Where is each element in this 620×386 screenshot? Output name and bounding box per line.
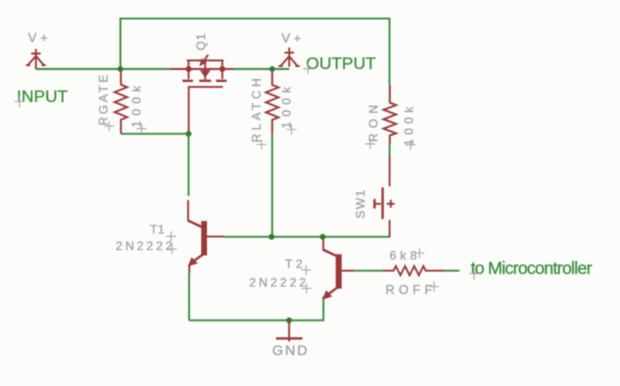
svg-text:GND: GND bbox=[272, 342, 309, 358]
svg-text:SW1: SW1 bbox=[354, 189, 368, 219]
Q1 middle leg bbox=[204, 61, 206, 80]
origin cross T2 bbox=[301, 265, 311, 275]
SW1 bottom pin bbox=[389, 220, 391, 237]
wire ROFF to microcontroller bbox=[445, 270, 460, 272]
ground symbol bbox=[276, 320, 302, 341]
wire bottom rail to T2 emitter bbox=[189, 297, 323, 321]
resistor RGATE 100k bbox=[115, 70, 128, 134]
origin cross 6k8 bbox=[415, 248, 425, 258]
wire RGATE bottom to gate node bbox=[121, 133, 189, 135]
Q1 gate bbox=[189, 87, 223, 132]
svg-text:Q1: Q1 bbox=[194, 32, 208, 50]
node junction Q1 source bbox=[186, 66, 192, 72]
svg-text:2N2222: 2N2222 bbox=[249, 275, 308, 289]
node junction main rail / top rail bbox=[118, 66, 124, 72]
origin cross T1 bbox=[166, 231, 176, 241]
svg-text:100k: 100k bbox=[402, 102, 416, 146]
node junction RLATCH top bbox=[269, 66, 275, 72]
origin cross ROFF bbox=[429, 282, 439, 292]
Q1 body diode arrow bbox=[203, 55, 208, 62]
Q1 left leg bbox=[188, 60, 190, 79]
T2 collector lead bbox=[322, 239, 324, 250]
T1 base pin bbox=[206, 236, 224, 238]
svg-text:OUTPUT: OUTPUT bbox=[306, 54, 376, 73]
wire T2 base to ROFF bbox=[354, 270, 382, 272]
Q1 substrate arrow bbox=[200, 70, 211, 78]
origin cross RLATCH bbox=[257, 140, 267, 150]
wire main V+/input rail bbox=[36, 68, 289, 70]
T1 base bar bbox=[201, 221, 207, 256]
svg-text:100k: 100k bbox=[280, 82, 294, 129]
SW1 plus mark bbox=[387, 200, 395, 208]
switch SW1 bbox=[375, 156, 395, 237]
svg-text:T2: T2 bbox=[285, 257, 306, 271]
svg-text:RLATCH: RLATCH bbox=[250, 75, 264, 143]
power symbol V+ output bbox=[279, 48, 300, 67]
node junction base rail / RLATCH bbox=[269, 234, 275, 240]
Q1 top bar with body connection bbox=[187, 59, 224, 61]
node junction GND bbox=[286, 317, 292, 323]
origin cross RGATE bbox=[104, 121, 114, 131]
SW1 top pin bbox=[389, 156, 391, 186]
wire top rail from input rail up and across to RON bbox=[120, 19, 389, 85]
Q1 right leg bbox=[221, 60, 223, 79]
resistor ROFF 6k8 bbox=[382, 266, 445, 275]
transistor T2 2N2222 bbox=[322, 239, 354, 300]
wire gate node down to T1 collector bbox=[188, 134, 190, 196]
svg-text:100k: 100k bbox=[130, 81, 144, 128]
T2 emitter lead bbox=[328, 287, 339, 295]
T1 emitter lead bbox=[194, 254, 205, 262]
node junction gate/RGATE bbox=[186, 131, 192, 137]
origin cross RON bbox=[365, 139, 375, 149]
resistor RLATCH 100k bbox=[266, 70, 279, 134]
svg-text:ROFF: ROFF bbox=[386, 283, 437, 297]
Q1 channel bars bbox=[183, 80, 227, 82]
T1 collector lead bbox=[187, 200, 189, 221]
resistor RON 100k bbox=[384, 85, 397, 144]
transistor T1 2N2222 bbox=[188, 200, 224, 273]
origin cross 2N2222 T2 bbox=[302, 284, 312, 294]
Q1 source pin bbox=[171, 68, 234, 70]
svg-text:INPUT: INPUT bbox=[17, 87, 68, 106]
wire RLATCH bottom drop bbox=[271, 134, 273, 237]
T2 base pin bbox=[341, 270, 354, 272]
svg-text:T1: T1 bbox=[150, 223, 165, 237]
svg-text:RGATE: RGATE bbox=[97, 72, 111, 125]
node junction base rail / T2 collector bbox=[320, 234, 326, 240]
origin cross 100k RON bbox=[406, 140, 416, 150]
power symbol V+ left bbox=[26, 49, 46, 69]
origin cross to Microcontroller bbox=[470, 268, 479, 280]
svg-text:V+: V+ bbox=[28, 30, 51, 45]
svg-text:to Microcontroller: to Microcontroller bbox=[471, 258, 593, 278]
SW1 left contact bbox=[373, 199, 375, 209]
origin cross 2N2222 T1 bbox=[167, 244, 177, 254]
origin cross 100k RLATCH bbox=[287, 125, 297, 135]
origin cross OUTPUT bbox=[304, 63, 313, 74]
wire T1 emitter drop bbox=[188, 273, 190, 320]
transistor Q1 p-mosfet bbox=[171, 55, 234, 132]
origin cross INPUT bbox=[15, 96, 25, 108]
node junction Q1 drain bbox=[219, 66, 225, 72]
svg-text:2N2222: 2N2222 bbox=[116, 239, 175, 253]
wire RON bottom to SW1 top bbox=[389, 144, 391, 156]
wire base rail T1 base to SW1 bottom bbox=[224, 236, 390, 238]
SW1 actuator bar bbox=[381, 188, 383, 220]
origin cross 100k RGATE bbox=[137, 124, 147, 134]
svg-text:V+: V+ bbox=[282, 30, 305, 45]
T2 base bar bbox=[336, 254, 342, 288]
svg-text:6k8: 6k8 bbox=[390, 249, 421, 263]
svg-text:RON: RON bbox=[367, 100, 381, 142]
